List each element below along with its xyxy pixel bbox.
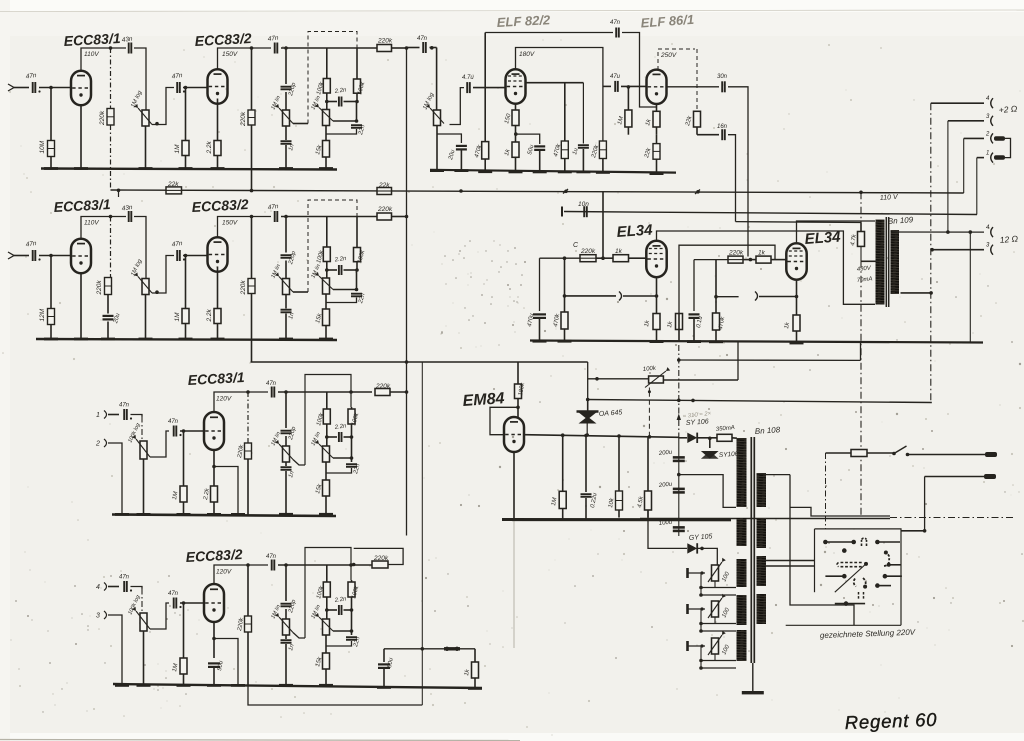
- transformer Bn108 core: [750, 437, 752, 663]
- wire tone top row3: [278, 391, 372, 393]
- dash wiper psu: [648, 388, 650, 392]
- wire fuse to winding: [732, 437, 737, 439]
- vertical t2: [947, 121, 949, 232]
- svg-text:10M: 10M: [39, 140, 46, 153]
- resistor 1k elf triode cathode: [656, 104, 658, 111]
- capacitor 22n row3: [351, 437, 353, 462]
- resistor 1M grid leak row1: [185, 88, 187, 141]
- resistor 15k row3: [325, 462, 327, 480]
- capacitor 1n row1: [285, 126, 287, 140]
- svg-text:47n: 47n: [610, 20, 621, 26]
- capacitor 47n interstage row3: [173, 426, 175, 437]
- psu center dash-dot: [678, 345, 680, 438]
- terminal wire 2: [948, 120, 984, 122]
- resistor 15k row2: [325, 294, 327, 309]
- resistor 470k el34 no2 grid leak: [715, 260, 717, 297]
- svg-text:220k: 220k: [240, 111, 247, 127]
- svg-text:220k: 220k: [728, 250, 744, 257]
- capacitor 20u elf: [456, 145, 467, 147]
- svg-text:150V: 150V: [222, 220, 238, 227]
- selector row3 right: [885, 575, 902, 577]
- potentiometer 1M lin treble row1: [285, 92, 287, 110]
- wire plate b row1: [218, 48, 272, 69]
- selector box bottom: [786, 624, 901, 626]
- wire plate row4: [214, 565, 268, 584]
- wire el34 no2 grid chain: [694, 259, 728, 261]
- capacitor 220p row4: [281, 603, 292, 605]
- gang box row3: [305, 375, 351, 466]
- capacitor 50u elf: [534, 145, 545, 147]
- capacitor 10n rail2: [583, 206, 585, 217]
- wire screen rail: [736, 221, 862, 224]
- heater arc el34 no2: [755, 292, 758, 301]
- resistor 220k el34 no2: [728, 256, 743, 263]
- vertical t3 to rail1: [963, 138, 965, 193]
- ground 01u: [687, 340, 701, 343]
- wire 22n bottom row2: [326, 298, 357, 303]
- ground rail em84: [502, 518, 731, 521]
- heater arc el34 no1: [619, 292, 622, 301]
- potentiometer 100k log row3: [140, 441, 147, 459]
- resistor 1k pentode: [512, 142, 519, 157]
- ground pot elf: [430, 169, 444, 172]
- capacitor 47n input row4: [123, 581, 125, 592]
- vertical pot out to ground rail: [737, 343, 739, 381]
- svg-text:220k: 220k: [240, 280, 247, 296]
- svg-text:22k: 22k: [167, 181, 179, 188]
- capacitor 47n interstage row4: [173, 598, 175, 609]
- diode GY105: [687, 543, 697, 553]
- rail 2 long: [564, 212, 977, 215]
- tube ECC83 b row1: [208, 69, 228, 103]
- capacitor 220p row1: [281, 86, 292, 88]
- wire bass wiper row4: [333, 630, 352, 632]
- resistor 220k el34 grid: [580, 255, 596, 262]
- resistor 1k el34 stopper: [596, 257, 613, 259]
- ground 15k row4: [319, 684, 333, 687]
- capacitor 47n to tone stack row1: [274, 43, 276, 54]
- wire EL34 grid chain: [540, 257, 581, 259]
- ground treble row2: [279, 338, 293, 341]
- capacitor 2.2n row2: [327, 269, 337, 271]
- wire input to pot row3: [131, 415, 143, 417]
- potentiometer 1M log elf: [430, 47, 437, 49]
- ground 470k elf2: [558, 171, 572, 174]
- wire treble branch row3: [285, 392, 287, 428]
- selector plug top: [862, 538, 867, 546]
- ground 20u elf: [454, 169, 468, 172]
- capacitor 2.2n row1: [327, 101, 337, 103]
- wire pentode plate loop: [516, 48, 603, 142]
- resistor 220k plate load row2: [110, 217, 112, 278]
- resistor 1k cathode el34 no1: [653, 314, 660, 330]
- capacitor 47n elf coupling: [614, 81, 616, 92]
- potentiometer 1M lin treble row2: [285, 261, 287, 279]
- capacitor 50u nfb: [383, 649, 385, 662]
- terminal wire 1: [931, 102, 984, 104]
- ground 220k elf: [596, 171, 610, 174]
- resistor 100k row2: [323, 247, 330, 262]
- ground cathode el34 no2: [790, 342, 804, 345]
- ground treble row1: [279, 167, 293, 170]
- resistor 10M row1: [48, 141, 55, 157]
- resistor 100k b row3: [351, 407, 353, 409]
- vertical from rail1: [602, 191, 604, 258]
- potentiometer 1M lin bass row3: [323, 446, 330, 462]
- tube ECC83 row4: [204, 584, 224, 622]
- svg-text:ECC83/2: ECC83/2: [191, 196, 249, 215]
- resistor 220k plate load b row2: [251, 217, 253, 279]
- capacitor 47n to tone stack row2: [274, 211, 276, 222]
- wire input2 to ground row3: [108, 443, 122, 515]
- svg-text:30n: 30n: [717, 74, 728, 80]
- terminal wire 6: [932, 249, 984, 251]
- wire plate el34 no1 to transformer bottom: [657, 231, 876, 304]
- resistor 220k output row3: [375, 389, 390, 396]
- transformer Bn108 left windings: [737, 438, 747, 507]
- wire cathode to ground row2: [80, 274, 82, 339]
- resistor 100k b row2: [356, 217, 358, 248]
- resistor 22k rail b: [377, 188, 392, 195]
- wire down to grid resistor row1: [50, 88, 52, 141]
- svg-text:Bn 108: Bn 108: [755, 425, 781, 436]
- stub end tick rail2: [561, 207, 563, 217]
- resistor 1k el34 no2: [743, 259, 756, 261]
- ground 470u: [533, 340, 547, 343]
- capacitor 50u cathode row4: [208, 662, 220, 664]
- transformer Bn109 core lines: [885, 217, 887, 307]
- tube ECC83 b row2: [208, 237, 228, 271]
- wire to triode grid: [621, 85, 647, 87]
- resistor 4.7k screen feed: [860, 192, 862, 222]
- dashed 250V box: [658, 49, 695, 70]
- heater wires 3: [701, 660, 736, 662]
- svg-text:110 V: 110 V: [880, 194, 900, 202]
- wire to output grid right: [728, 87, 748, 257]
- tube ELF82 pentode: [506, 69, 526, 103]
- resistor 180k em84: [517, 362, 519, 384]
- potentiometer 100 heater 1: [712, 565, 719, 581]
- selector row3 plug: [854, 578, 866, 587]
- ground treble row4: [279, 684, 293, 687]
- svg-text:1M: 1M: [174, 144, 181, 154]
- svg-text:16n: 16n: [717, 124, 728, 130]
- ground cathode row2: [211, 338, 225, 341]
- wire tone top row4: [278, 564, 372, 566]
- wire 4.5k to gy105: [648, 510, 687, 549]
- stub rail left: [118, 190, 120, 197]
- resistor 220k output row2: [377, 213, 392, 220]
- resistor 1M grid row3: [183, 431, 185, 486]
- wire down to grid resistor row2: [50, 256, 52, 309]
- svg-text:12M: 12M: [39, 308, 46, 321]
- svg-text:EL34: EL34: [616, 221, 654, 241]
- svg-text:3: 3: [96, 613, 100, 620]
- wire psu pot: [588, 362, 649, 379]
- wire em84 cathode: [513, 452, 515, 519]
- wire grid row2: [39, 255, 71, 257]
- svg-text:ECC83/1: ECC83/1: [53, 196, 111, 215]
- svg-text:110V: 110V: [84, 51, 99, 58]
- svg-text:47n: 47n: [417, 36, 428, 42]
- capacitor 100u: [673, 526, 685, 529]
- resistor 220k output row4: [372, 561, 388, 568]
- ground cathode el34 no1: [650, 340, 664, 343]
- selector row1 right: [877, 541, 900, 543]
- capacitor 470u el34: [539, 258, 541, 311]
- ground rail elf: [430, 170, 676, 173]
- wire bass wiper row2: [333, 289, 357, 291]
- resistor 100k b row4: [351, 580, 353, 582]
- dash-dot screen feed down: [860, 246, 862, 261]
- wire bass wiper row1: [333, 120, 357, 122]
- svg-text:2.2k: 2.2k: [206, 140, 213, 154]
- svg-text:2.2k: 2.2k: [206, 308, 213, 322]
- wire center tap: [861, 260, 876, 262]
- capacitor 47n input row1: [32, 82, 34, 93]
- wire to treble cap row1: [285, 48, 287, 84]
- svg-text:110V: 110V: [84, 220, 99, 227]
- wire to tube b grid row1: [183, 87, 207, 89]
- resistor 22k elf: [656, 135, 658, 144]
- wire 100k branch row2: [326, 217, 328, 248]
- wire mix node to elf cap: [407, 47, 420, 49]
- svg-text:220k: 220k: [377, 38, 393, 45]
- diode OA645: [587, 400, 589, 412]
- svg-text:1M: 1M: [174, 312, 181, 322]
- capacitor 22n row1: [356, 102, 358, 123]
- mixing bus vertical: [406, 48, 408, 536]
- svg-text:47n: 47n: [266, 381, 277, 387]
- wire pot bottom elf: [436, 126, 438, 171]
- svg-text:4.7u: 4.7u: [462, 75, 474, 81]
- ground cathode row1: [211, 167, 225, 170]
- vertical t4 to rail2: [976, 158, 978, 215]
- arrow on center line: [677, 414, 681, 421]
- selector stray dot: [842, 548, 847, 553]
- capacitor 22n row2: [356, 270, 358, 291]
- wire to 50u cap: [516, 134, 540, 144]
- resistor 1k cathode el34 no2: [793, 315, 800, 331]
- core ground: [752, 663, 754, 691]
- svg-text:220k: 220k: [375, 383, 391, 390]
- wire mains 2 down: [924, 477, 926, 531]
- capacitor 16n: [721, 129, 723, 140]
- selector mid plug: [837, 563, 862, 567]
- wire cathode junction row3: [214, 467, 238, 515]
- ground 22k elf: [650, 172, 664, 175]
- wire diode to fuse: [698, 437, 717, 439]
- resistor 1M em84: [562, 435, 564, 491]
- wire grid pentode: [473, 87, 506, 89]
- wire 220k out row4: [354, 548, 403, 564]
- ground 470k elf: [478, 170, 492, 173]
- heater wires 2: [701, 623, 736, 625]
- wire pot wiper elf: [450, 88, 465, 125]
- selector row3 wire2: [877, 585, 891, 587]
- svg-text:220k: 220k: [373, 555, 389, 562]
- svg-text:1: 1: [96, 412, 100, 419]
- svg-text:180V: 180V: [519, 51, 535, 58]
- resistor 100k row1: [323, 79, 330, 94]
- resistor 220k elf drop: [599, 141, 606, 159]
- resistor 220k plate b row3: [247, 392, 249, 443]
- wire input to pot row4: [131, 587, 143, 589]
- svg-text:220k: 220k: [377, 206, 393, 213]
- ground em84: [507, 518, 521, 521]
- svg-text:ECC83/1: ECC83/1: [63, 30, 121, 49]
- wire psu right step: [790, 507, 890, 516]
- resistor 220k plate load row1: [110, 48, 112, 109]
- wire switch to plug: [908, 454, 986, 456]
- potentiometer 100 heater 3: [712, 638, 719, 654]
- wire pentode screen to caps: [526, 82, 584, 84]
- terminal wire 4: [977, 157, 984, 159]
- capacitor 47n interstage row2: [176, 250, 178, 261]
- dashed gang box row2: [308, 200, 357, 292]
- svg-text:47n: 47n: [119, 575, 130, 581]
- potentiometer 1M log volume row1: [142, 110, 149, 126]
- wire plate row3: [214, 392, 268, 412]
- ground 15k row3: [319, 513, 333, 516]
- ground rail row4: [113, 684, 482, 688]
- wire to grid row4: [180, 602, 203, 604]
- resistor 15k row1: [325, 126, 327, 141]
- wire selector left loop: [766, 474, 791, 476]
- dash-dot fuse down: [825, 453, 827, 529]
- wire top rail down to cathode node: [622, 33, 657, 108]
- ground 1u elf: [576, 171, 590, 174]
- wire 22n bottom row1: [326, 129, 357, 134]
- heater T bar 1: [686, 568, 689, 578]
- wire cathode junction row4: [214, 639, 238, 686]
- svg-text:47u: 47u: [610, 74, 621, 80]
- wire treble wiper row2: [293, 291, 308, 293]
- fuse 350mA: [717, 434, 732, 441]
- tube EL34 no1: [646, 241, 666, 277]
- tube ECC83 a row2: [71, 239, 91, 273]
- selector row3: [825, 575, 844, 577]
- resistor 15k row4: [325, 635, 327, 653]
- wire 20u branch: [437, 134, 461, 143]
- wire em84 grid box: [490, 407, 518, 434]
- ground 15k row2: [319, 338, 333, 341]
- wire primary tap b: [766, 565, 815, 567]
- capacitor 4.7n top: [615, 28, 617, 38]
- wire cathode row4: [213, 622, 215, 658]
- resistor 470k elf2: [564, 83, 566, 141]
- svg-text:47n: 47n: [119, 403, 130, 409]
- svg-text:22k: 22k: [378, 182, 390, 189]
- wire grid to tube: [629, 257, 646, 259]
- ground rail row3: [112, 515, 336, 517]
- ground rail output stage: [530, 341, 983, 343]
- heater wire el34 no1: [563, 294, 567, 298]
- wire treble wiper row1: [293, 123, 308, 125]
- resistor 470k elf: [484, 33, 486, 142]
- wire heater node2: [716, 296, 739, 298]
- ground row2 grid resistor: [44, 338, 58, 341]
- grid2 network el34: [693, 260, 695, 311]
- capacitor 47n tone row3: [271, 387, 273, 398]
- resistor 1k nfb: [474, 649, 476, 662]
- resistor 220k plate load b row1: [251, 48, 253, 110]
- wire secondary top to terminals: [892, 231, 985, 233]
- capacitor 4.7u elf input: [466, 82, 468, 93]
- wire input row1: [8, 84, 14, 91]
- ground row1 grid resistor: [44, 167, 58, 170]
- potentiometer 1M lin row4: [285, 609, 287, 619]
- mix rail y362: [251, 361, 588, 363]
- potentiometer 100k log row4: [140, 613, 147, 631]
- diode SY106 no1: [687, 433, 697, 443]
- svg-text:12 Ω: 12 Ω: [999, 233, 1019, 245]
- paper top scan line: [0, 10, 1024, 12]
- svg-text:4: 4: [96, 584, 100, 591]
- selector right plug curved: [884, 553, 889, 567]
- wire gy105 to heater: [698, 548, 717, 565]
- ground pentode cathode: [509, 171, 523, 174]
- svg-text:220k: 220k: [580, 248, 596, 255]
- wire psu pot out: [663, 379, 738, 381]
- transformer Bn108 right windings: [757, 473, 767, 507]
- ground 470k el34: [558, 340, 572, 343]
- wire cathode el34 no1: [656, 279, 658, 314]
- transformer Bn109 secondary winding: [891, 230, 900, 294]
- wire step to winding: [679, 475, 736, 508]
- heater T bar 2: [686, 604, 689, 614]
- resistor 100k row3: [326, 392, 328, 409]
- svg-text:220k: 220k: [99, 110, 106, 126]
- ground rail row1: [41, 169, 337, 170]
- wire secondary bottom: [901, 292, 932, 294]
- wire treble wiper row3: [293, 460, 305, 466]
- capacitor 200u no2: [673, 488, 685, 491]
- capacitor 0.22u em84: [585, 436, 587, 493]
- faint crease line em84: [513, 521, 515, 648]
- resistor 4.5k psu: [647, 437, 649, 491]
- ground 1M row1: [179, 167, 193, 170]
- resistor 2.2k cathode row3: [211, 486, 218, 502]
- svg-text:1k: 1k: [758, 250, 766, 257]
- svg-text:2: 2: [985, 131, 990, 137]
- dashed gang box row1: [308, 32, 357, 124]
- svg-text:SY106: SY106: [719, 451, 739, 459]
- jumper terminals 3-4: [1005, 138, 1011, 157]
- svg-text:220k: 220k: [96, 280, 103, 296]
- svg-text:Bn 109: Bn 109: [888, 215, 914, 226]
- potentiometer 1M log volume row2: [142, 279, 149, 295]
- gang box row4: [305, 548, 351, 639]
- capacitor 1n row3: [285, 462, 287, 466]
- wire em84 output line: [525, 435, 679, 438]
- wire plate b row2: [218, 217, 272, 237]
- vertical ground drop: [969, 232, 971, 342]
- svg-text:10n: 10n: [578, 201, 589, 208]
- potentiometer 1M lin bass row4: [323, 619, 330, 635]
- capacitor 1n row4: [285, 635, 287, 639]
- vertical t1 to psu: [930, 402, 933, 404]
- wire plate row1: [81, 48, 126, 70]
- svg-text:ECC83/2: ECC83/2: [194, 30, 252, 49]
- wire rectifier node: [679, 437, 687, 439]
- wire treble branch row4: [285, 565, 287, 601]
- rail B+ with 22k resistors: [111, 190, 964, 193]
- wire wiper to coupling cap row2: [155, 290, 159, 294]
- wire 16n to rail2: [697, 134, 719, 136]
- capacitor 2.2n row3: [327, 436, 337, 438]
- wire input row2: [8, 252, 14, 259]
